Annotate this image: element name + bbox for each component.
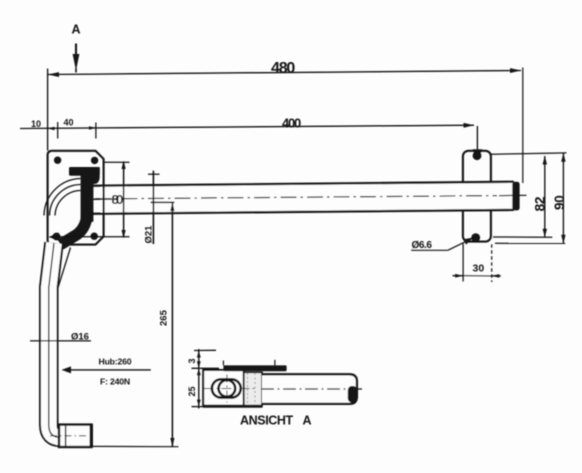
- tube top edge: [93, 182, 514, 186]
- dia 6.6 leader: [448, 240, 469, 250]
- bottom edge thick: [203, 405, 263, 408]
- svg-text:90: 90: [552, 196, 567, 210]
- dim line 400: [20, 125, 474, 128]
- dim 82 line: [544, 156, 546, 237]
- view tube centerline: [261, 388, 363, 390]
- dia 21 extension: [152, 171, 154, 244]
- extension line right of 480 (tube end): [522, 68, 524, 184]
- rod bend arcs: [44, 179, 81, 216]
- rod elbow (black): [61, 212, 88, 245]
- block centerline: [50, 435, 88, 437]
- right plate: [463, 151, 491, 242]
- view arrow A head: [73, 54, 80, 71]
- right plate top hole: [473, 151, 482, 160]
- svg-text:ANSICHT: ANSICHT: [240, 413, 294, 427]
- svg-text:A: A: [72, 23, 81, 37]
- crosshair: [204, 388, 257, 390]
- flat bar: [223, 365, 286, 371]
- small arrow at 95.9: [89, 126, 96, 129]
- svg-text:265: 265: [159, 309, 170, 326]
- dim 82 bottom extension: [493, 236, 552, 238]
- centerline solid segment left: [90, 198, 113, 200]
- svg-text:Hub:260: Hub:260: [99, 357, 132, 367]
- view plate: [203, 370, 244, 406]
- dim 265 line: [171, 202, 173, 446]
- left plate hole bottom-right: [91, 233, 98, 240]
- handle end block: [59, 425, 92, 447]
- left plate: [48, 151, 104, 245]
- tube body (white): [101, 182, 513, 213]
- dim 400 right arrow: [464, 123, 475, 128]
- tube end blob: [348, 386, 357, 403]
- dim 90 line: [562, 153, 564, 243]
- dim 265 top tick: [151, 201, 175, 203]
- dim line: [198, 349, 200, 409]
- svg-text:40: 40: [64, 118, 74, 128]
- rod bend inner edge: [58, 248, 71, 290]
- tick x=95.9: [95, 123, 97, 139]
- dim 265 bottom extension: [92, 445, 179, 447]
- dim 90 bottom extension: [495, 242, 565, 244]
- left plate hole bottom-left with arrow: [53, 233, 61, 241]
- left plate hole top-left: [54, 157, 61, 164]
- rod hook horizontal bar (black): [69, 167, 100, 176]
- svg-text:Ø16: Ø16: [71, 332, 89, 343]
- svg-text:Ø6.6: Ø6.6: [412, 240, 433, 251]
- dim 30 line with outside arrows: [453, 275, 464, 277]
- svg-text:82: 82: [532, 196, 548, 211]
- dia16 leader: [30, 340, 91, 342]
- svg-text:3: 3: [187, 358, 197, 363]
- view tube: [262, 374, 357, 404]
- svg-text:25: 25: [187, 386, 197, 396]
- hole-spacing dim left plate: [103, 161, 130, 163]
- view arrow A shaft: [75, 44, 77, 59]
- rod inner line: [49, 243, 60, 437]
- slot obround: [212, 379, 241, 397]
- slot circle: [219, 380, 236, 397]
- svg-text:480: 480: [271, 60, 295, 77]
- svg-text:Ø21: Ø21: [144, 225, 155, 244]
- rod hook vertical bar (black): [81, 167, 94, 222]
- clamp block: [244, 372, 262, 406]
- svg-text:30: 30: [473, 263, 485, 275]
- tick x=57.7: [57, 122, 59, 139]
- left plate hole top-right: [91, 157, 98, 164]
- arrowhead into top hole: [473, 149, 483, 160]
- extension down to right plate top hole: [476, 126, 478, 150]
- svg-text:10: 10: [31, 119, 41, 129]
- dim line 480: [48, 71, 521, 75]
- dim 480 left arrow: [48, 72, 59, 77]
- rod outline: [49, 243, 60, 437]
- svg-text:F: 240N: F: 240N: [100, 377, 130, 387]
- right plate dims: top extension: [491, 153, 567, 154]
- extension line left (480/400 origin): [47, 69, 49, 151]
- tube end cap: [512, 182, 519, 211]
- tube bottom edge: [93, 210, 514, 214]
- dim 30 extensions: [462, 244, 464, 282]
- svg-text:400: 400: [282, 116, 301, 131]
- svg-text:A: A: [303, 413, 312, 427]
- small arrow at 47.4: [48, 127, 55, 130]
- right plate bottom hole: [471, 233, 480, 242]
- dim 480 right arrow: [510, 68, 521, 73]
- Hub leader arrow: [62, 366, 72, 373]
- tube centerline: [95, 196, 497, 199]
